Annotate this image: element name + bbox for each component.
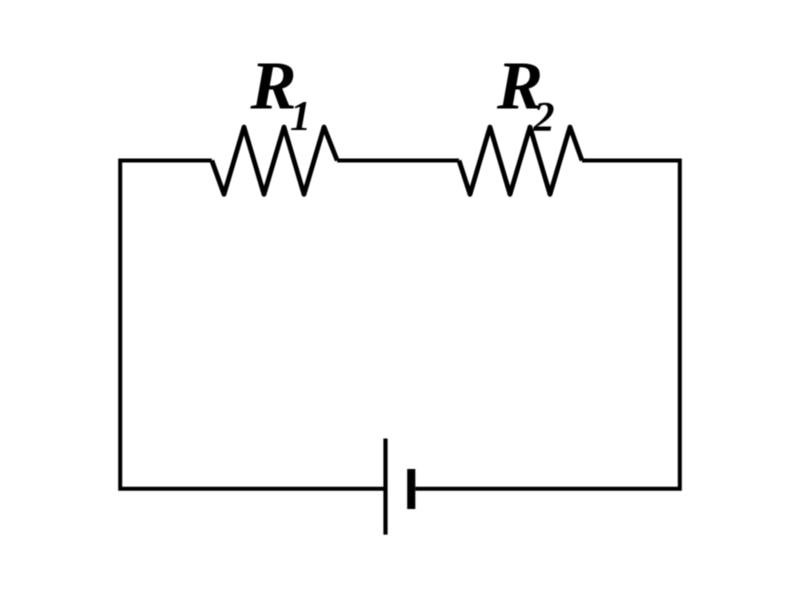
svg-text:2: 2 bbox=[533, 95, 555, 141]
svg-text:1: 1 bbox=[290, 94, 311, 140]
